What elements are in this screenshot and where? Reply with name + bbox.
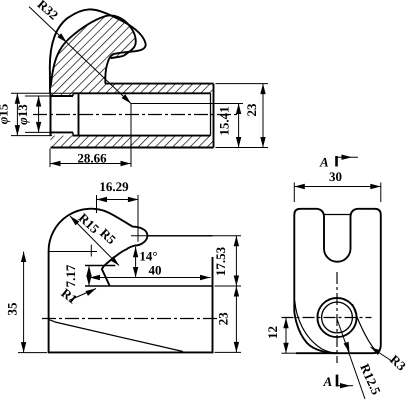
arrowhead 40 left (90, 275, 101, 280)
svg-text:A: A (319, 155, 329, 170)
dim 40 line (90, 277, 211, 279)
svg-text:7.17: 7.17 (63, 264, 78, 287)
dim 30 line (294, 186, 381, 188)
arrowhead 23 bottom (view2) (234, 342, 239, 353)
centerline vertical (336, 272, 338, 363)
dim 28.66 line (50, 163, 131, 165)
centerline view2 (42, 318, 219, 320)
dim 14 line (135, 247, 137, 278)
arrowhead section A bottom (340, 383, 351, 388)
arrowhead 23 top (view2) (234, 286, 239, 297)
arrowhead 12 top (283, 318, 288, 329)
arrowhead 17.53 top (234, 236, 239, 247)
ext line 15.41 top (131, 103, 243, 105)
dim 23 ext top (216, 83, 269, 85)
R5 center cross (131, 235, 155, 237)
arrowhead 40 right (200, 275, 211, 280)
arrowhead 28.66 right (121, 161, 132, 166)
counterbore step line 1 (72, 93, 74, 135)
arrowhead R32 on arc (57, 33, 68, 44)
counterbore step line 2 (78, 93, 80, 135)
bore phi15 top (73, 92, 211, 94)
leader R12.5 (337, 318, 366, 400)
arrowhead 30 right (370, 184, 381, 189)
arrowhead R15-R5 upper (68, 214, 79, 225)
arrowhead 15.41 top (236, 104, 241, 115)
arrowhead 35 bottom (21, 342, 26, 353)
arrowhead R32 at centre (122, 94, 133, 105)
svg-text:17.53: 17.53 (213, 246, 228, 276)
left face (50, 93, 52, 135)
slot lower edge B (85, 285, 213, 287)
arrowhead R3 (369, 345, 381, 355)
arrowhead 15.41 bottom (236, 137, 241, 148)
hatch region head (50, 15, 213, 96)
svg-text:14°: 14° (139, 249, 157, 264)
dim 35 line (23, 252, 25, 353)
svg-text:16.29: 16.29 (99, 179, 129, 194)
arrowhead 16.29 right (128, 197, 139, 202)
arrowhead phi15 bottom (15, 125, 20, 136)
arrowhead 23 bottom (260, 137, 265, 148)
leader R1 (69, 289, 96, 301)
dim 35 ext bottom (18, 352, 47, 354)
arrowhead R1 (85, 286, 97, 296)
arrowhead R12.5 (344, 342, 353, 354)
arrowhead 7.17 top (86, 266, 91, 277)
dim phi15 extension lines (11, 92, 72, 94)
arrowhead 16.29 left (97, 197, 108, 202)
dim 17.53 ext top (153, 235, 241, 237)
arrowhead 35 top (21, 252, 26, 263)
hatch region bottom wall (51, 136, 214, 148)
dim 15.41 line (238, 104, 240, 148)
dim 23/15.41 ext bottom (216, 147, 269, 149)
leader R15 R5 (70, 216, 119, 266)
centerline horizontal (282, 317, 372, 319)
bottom right inner curve (353, 304, 376, 350)
arrowhead R15-R5 lower (110, 256, 121, 267)
svg-text:15.41: 15.41 (217, 106, 232, 135)
svg-text:40: 40 (149, 263, 162, 278)
section mark A top (335, 156, 338, 167)
arrowhead 12 bottom (283, 343, 288, 354)
arrowhead phi15 top (15, 93, 20, 104)
arrowhead phi13 top (36, 96, 41, 107)
arrowhead 28.66 left (50, 161, 61, 166)
outline view2 (49, 209, 213, 353)
circle inner (322, 302, 353, 333)
svg-text:23: 23 (244, 103, 259, 117)
svg-text:30: 30 (329, 169, 342, 184)
arrowhead phi13 bottom (36, 122, 41, 133)
svg-text:35: 35 (5, 302, 20, 316)
bottom left big corner curve (294, 311, 337, 353)
svg-text:23: 23 (216, 312, 231, 326)
slot bottom edge A (85, 265, 115, 267)
arrowhead section A top (342, 155, 353, 160)
slot inner line (325, 214, 351, 216)
section mark A bottom (336, 375, 339, 387)
R15 center cross (49, 251, 97, 253)
svg-text:12: 12 (265, 326, 280, 339)
dim phi15 line (16, 93, 18, 135)
inner section boundary of head (51, 15, 136, 86)
dim 7.17 line (88, 266, 90, 286)
dim 16.29 ext right / R5 centre vertical (137, 195, 139, 242)
dim 12 ext bottom (282, 352, 297, 354)
circle outer (317, 298, 356, 337)
tube bottom edge (51, 147, 214, 149)
body top face line (148, 235, 213, 237)
dim 16.29 ext left (96, 195, 98, 213)
tube top edge (105, 83, 213, 85)
arrowhead 30 left (294, 184, 305, 189)
dim phi13 extension lines (25, 95, 50, 97)
arrowhead 23 top (260, 84, 265, 95)
leader R3 (371, 347, 392, 361)
right end bore line (210, 93, 212, 135)
arrowhead 14deg bottom (133, 267, 138, 278)
diagonal edge (49, 320, 183, 352)
svg-text:φ15: φ15 (0, 103, 11, 124)
leader R32 (29, 7, 131, 104)
bore phi15 bottom (73, 135, 211, 137)
arrowhead 7.17 bottom (86, 276, 91, 287)
lip bore phi13 top (51, 95, 74, 97)
svg-text:A: A (322, 374, 332, 389)
arrowhead 14deg top (133, 247, 138, 257)
svg-text:φ13: φ13 (15, 104, 30, 125)
dim 17.53/23 line (235, 236, 237, 353)
dim phi13 line (38, 96, 40, 132)
arrowhead 17.53 bottom (234, 276, 239, 287)
dim 30 ext (293, 183, 295, 203)
lip bore phi13 bottom (51, 131, 74, 133)
dim 28.66 extension lines (49, 149, 51, 168)
dim 12 line (285, 318, 287, 353)
dim 23 line (262, 84, 264, 148)
outline view3 (294, 209, 381, 353)
dim 16.29 line (97, 199, 139, 201)
bottom left inner curve (295, 301, 337, 353)
ext 23 v2 (215, 285, 242, 287)
centerline view1 (33, 114, 240, 116)
svg-text:28.66: 28.66 (77, 151, 107, 166)
right end face outer (213, 84, 215, 148)
outer silhouette of head (50, 9, 146, 93)
